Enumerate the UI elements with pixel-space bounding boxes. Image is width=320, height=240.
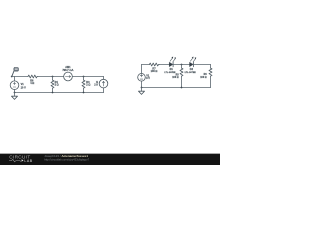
resistor R3 (vertical) [83,77,85,81]
LED D2 [190,57,197,67]
resistor R7 (horizontal) [149,63,159,66]
wire [12,76,28,78]
node B junction [52,76,54,78]
svg-text:LAB: LAB [24,159,32,163]
node D junction [181,64,183,66]
top wire [142,64,150,66]
resistor R1 (horizontal) [28,75,38,78]
wire [193,64,210,66]
svg-text:4 Ω: 4 Ω [30,82,34,85]
svg-text:http://circuitlab.com/c/py433c: http://circuitlab.com/c/py433c6qbqcv7 [44,158,89,162]
ground (left) [14,93,16,97]
rail junctions [14,92,16,94]
svg-text:798.7 mA: 798.7 mA [62,69,73,72]
rail junctions [141,87,143,89]
voltage source V1 [10,77,19,93]
svg-text:Joseph123 / Acienamerfosses1: Joseph123 / Acienamerfosses1 [44,154,88,158]
node C junction [83,76,85,78]
resistor R6 (vertical) [210,65,212,69]
svg-text:2 Ω: 2 Ω [55,84,59,87]
current source I1 [99,77,108,93]
wire [159,64,169,66]
LED D1 [169,57,176,67]
svg-text:100 Ω: 100 Ω [151,70,158,73]
wire [173,64,189,66]
ground (right) [141,88,143,92]
svg-text:2 A: 2 A [94,84,98,87]
bottom rail [15,92,104,94]
svg-text:100 Ω: 100 Ω [200,77,206,79]
svg-text:10 V: 10 V [21,86,26,89]
CircuitLab logo [9,154,33,163]
voltage source V2 [138,65,146,88]
wire [72,76,103,78]
probe flag [12,68,19,77]
resistor R5 (vertical) [181,65,183,69]
watermark bar [0,153,220,165]
wire [38,76,64,78]
svg-text:2 Ω: 2 Ω [86,84,90,87]
svg-text:LTL-307EE: LTL-307EE [185,72,197,74]
node A junction [11,76,13,78]
resistor R2 (vertical) [52,77,54,81]
ammeter AM1 [64,72,73,81]
svg-text:LTL-307EE: LTL-307EE [164,72,176,74]
svg-text:100 Ω: 100 Ω [172,77,178,79]
svg-text:9 V: 9 V [146,77,150,80]
bottom rail [142,87,211,89]
